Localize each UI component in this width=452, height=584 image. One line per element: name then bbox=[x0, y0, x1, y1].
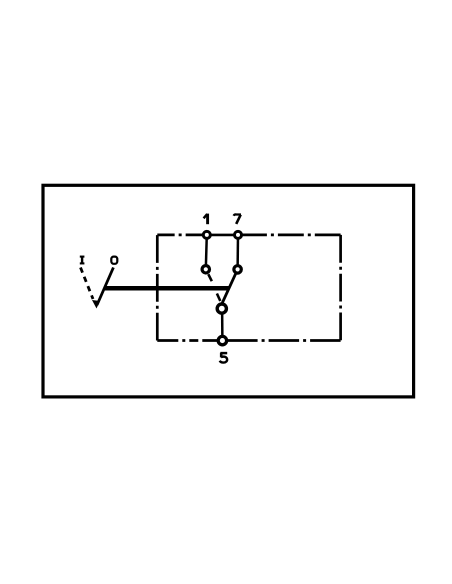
actuator lever link bbox=[105, 286, 230, 291]
wire moving contact to terminal 5 bbox=[221, 309, 224, 341]
toggle position 0 stroke (solid) bbox=[97, 268, 113, 306]
moving contact bbox=[217, 304, 226, 313]
terminal 1 bbox=[203, 231, 210, 238]
pin label 1 bbox=[204, 214, 208, 225]
fixed contact for terminal 1 bbox=[202, 266, 209, 273]
contact arm position I (open, dashed) bbox=[208, 274, 212, 281]
wire terminal 1 to fixed contact bbox=[206, 235, 207, 269]
terminal 5 bbox=[218, 336, 226, 344]
position label 0 bbox=[111, 257, 117, 264]
terminal 7 bbox=[235, 231, 242, 238]
toggle position I stroke (dashed) bbox=[81, 268, 94, 300]
pin label 7 bbox=[234, 214, 241, 223]
position label I bbox=[80, 256, 85, 264]
wire terminal1-terminal7 bbox=[203, 234, 241, 237]
switch body outline S (dash-dot enclosure) bbox=[157, 235, 340, 341]
contact arm position 0 (closed, solid) bbox=[222, 269, 238, 304]
fixed contact for terminal 7 bbox=[234, 266, 241, 273]
toggle pivot tip bbox=[92, 300, 100, 309]
pin label 5 bbox=[220, 353, 228, 363]
wire terminal 7 to fixed contact bbox=[236, 235, 239, 270]
